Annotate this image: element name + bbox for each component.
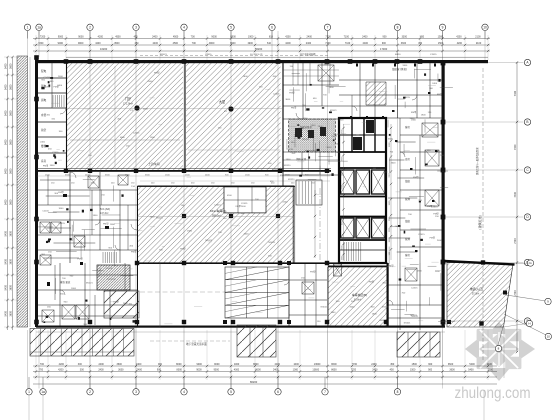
svg-text:M1520: M1520 xyxy=(288,179,295,181)
svg-text:2400: 2400 xyxy=(432,83,438,85)
svg-text:1000: 1000 xyxy=(293,368,299,371)
svg-text:2400: 2400 xyxy=(143,109,149,111)
svg-text:2: 2 xyxy=(89,26,91,30)
svg-text:M1021: M1021 xyxy=(160,54,167,56)
svg-text:2: 2 xyxy=(89,390,91,394)
svg-text:2400: 2400 xyxy=(148,81,154,83)
svg-text:值班: 值班 xyxy=(405,219,411,223)
svg-text:3600: 3600 xyxy=(10,311,13,317)
svg-text:2400: 2400 xyxy=(307,36,313,39)
svg-text:63.8m²: 63.8m² xyxy=(354,299,361,302)
svg-text:M1021: M1021 xyxy=(86,283,93,285)
svg-text:9000: 9000 xyxy=(78,42,84,45)
svg-text:16200: 16200 xyxy=(100,47,108,51)
svg-text:900: 900 xyxy=(382,36,387,39)
svg-text:57.3m²: 57.3m² xyxy=(472,293,479,296)
svg-text:3600: 3600 xyxy=(10,168,13,174)
svg-text:9000: 9000 xyxy=(58,42,64,45)
svg-text:9000: 9000 xyxy=(214,363,220,366)
svg-text:5400: 5400 xyxy=(5,63,8,69)
svg-text:2400: 2400 xyxy=(437,240,443,242)
svg-text:1800: 1800 xyxy=(329,87,335,89)
svg-text:1800: 1800 xyxy=(58,208,64,210)
svg-text:8: 8 xyxy=(397,390,399,394)
svg-text:坡道(入口): 坡道(入口) xyxy=(470,287,483,291)
svg-text:C2415: C2415 xyxy=(418,234,425,236)
svg-text:M1021: M1021 xyxy=(302,139,309,141)
svg-text:3: 3 xyxy=(135,26,137,30)
svg-text:171.24m²: 171.24m² xyxy=(123,103,133,106)
svg-text:9000: 9000 xyxy=(78,36,84,39)
svg-text:1900: 1900 xyxy=(247,42,253,45)
svg-text:3600: 3600 xyxy=(150,216,156,218)
svg-text:55200: 55200 xyxy=(255,47,263,51)
svg-text:M1021: M1021 xyxy=(269,242,276,244)
svg-text:电梯厅: 电梯厅 xyxy=(348,159,356,163)
svg-text:1900: 1900 xyxy=(248,36,254,39)
svg-text:配电: 配电 xyxy=(41,69,47,73)
svg-text:上空(车库): 上空(车库) xyxy=(148,162,160,166)
svg-text:7100: 7100 xyxy=(325,36,331,39)
svg-text:8.0 (A6): 8.0 (A6) xyxy=(100,207,110,211)
svg-text:H: H xyxy=(528,322,530,326)
svg-text:4: 4 xyxy=(183,390,185,394)
svg-text:2100: 2100 xyxy=(475,36,481,39)
svg-text:大堂: 大堂 xyxy=(219,99,225,104)
svg-text:1: 1 xyxy=(27,26,29,30)
svg-text:C2415: C2415 xyxy=(214,205,221,207)
svg-text:2400: 2400 xyxy=(371,363,377,366)
svg-text:4200: 4200 xyxy=(457,42,463,45)
svg-text:900: 900 xyxy=(382,42,387,45)
svg-text:| 建筑红线 |: | 建筑红线 | xyxy=(477,215,482,230)
svg-text:3600: 3600 xyxy=(303,118,309,120)
svg-text:300: 300 xyxy=(78,363,83,366)
svg-text:1800: 1800 xyxy=(45,87,51,89)
svg-text:客房: 客房 xyxy=(405,253,411,257)
svg-text:900: 900 xyxy=(428,368,433,371)
svg-text:管井: 管井 xyxy=(405,197,411,201)
svg-text:7700: 7700 xyxy=(352,363,358,366)
svg-text:前室: 前室 xyxy=(41,128,47,132)
svg-text:700: 700 xyxy=(40,363,45,366)
svg-text:5: 5 xyxy=(230,26,232,30)
svg-text:M1021: M1021 xyxy=(156,218,163,220)
svg-text:1800: 1800 xyxy=(110,224,116,226)
svg-text:2400: 2400 xyxy=(435,271,441,273)
svg-text:3600: 3600 xyxy=(10,231,13,237)
svg-text:2100: 2100 xyxy=(488,368,494,371)
svg-text:C2415: C2415 xyxy=(273,93,280,95)
svg-text:300: 300 xyxy=(80,368,85,371)
svg-text:9000: 9000 xyxy=(214,368,220,371)
svg-text:值班室 (休息): 值班室 (休息) xyxy=(392,67,407,71)
svg-text:4200: 4200 xyxy=(58,368,64,371)
svg-text:7700: 7700 xyxy=(351,368,357,371)
svg-text:1800: 1800 xyxy=(417,270,423,272)
svg-text:1800: 1800 xyxy=(286,159,292,161)
svg-text:2400: 2400 xyxy=(40,141,46,143)
svg-text:1800: 1800 xyxy=(50,165,56,167)
svg-text:4: 4 xyxy=(183,26,185,30)
svg-text:zhulong.com: zhulong.com xyxy=(455,385,531,402)
svg-text:7: 7 xyxy=(324,390,326,394)
svg-text:2400: 2400 xyxy=(152,36,158,39)
svg-text:1800: 1800 xyxy=(339,119,345,121)
svg-text:客房: 客房 xyxy=(405,125,411,129)
svg-text:5400: 5400 xyxy=(5,231,8,237)
svg-text:7200: 7200 xyxy=(40,36,46,39)
svg-text:86200: 86200 xyxy=(250,380,258,384)
svg-text:2400: 2400 xyxy=(98,368,104,371)
svg-text:车库夹层(B): 车库夹层(B) xyxy=(352,293,367,297)
svg-text:3600: 3600 xyxy=(448,363,454,366)
svg-text:147.3m²: 147.3m² xyxy=(100,212,109,215)
svg-text:8000: 8000 xyxy=(177,368,183,371)
svg-text:3600: 3600 xyxy=(117,363,123,366)
svg-text:3600: 3600 xyxy=(285,99,291,101)
svg-text:3600: 3600 xyxy=(349,306,355,308)
svg-text:13600: 13600 xyxy=(314,363,321,366)
svg-text:淋浴 更衣: 淋浴 更衣 xyxy=(60,280,71,284)
svg-text:3600: 3600 xyxy=(391,163,397,165)
svg-text:4200: 4200 xyxy=(456,36,462,39)
svg-text:13600: 13600 xyxy=(312,368,319,371)
svg-text:1800: 1800 xyxy=(379,320,385,322)
svg-text:9000: 9000 xyxy=(211,36,217,39)
svg-text:6: 6 xyxy=(277,390,279,394)
svg-text:7100: 7100 xyxy=(325,42,331,45)
svg-text:7400: 7400 xyxy=(514,144,517,150)
svg-text:700: 700 xyxy=(192,42,197,45)
svg-text:7400: 7400 xyxy=(514,90,517,96)
svg-text:5400: 5400 xyxy=(5,311,8,317)
svg-text:1800: 1800 xyxy=(372,313,378,315)
svg-text:6900: 6900 xyxy=(230,36,236,39)
svg-text:消防水池: 消防水池 xyxy=(296,157,307,161)
svg-text:2400: 2400 xyxy=(275,363,281,366)
svg-text:C2415: C2415 xyxy=(133,133,140,135)
svg-text:M1021: M1021 xyxy=(336,152,343,154)
svg-text:9000: 9000 xyxy=(58,36,64,39)
svg-text:2400: 2400 xyxy=(136,363,142,366)
svg-text:6900: 6900 xyxy=(230,42,236,45)
svg-text:2400: 2400 xyxy=(153,42,159,45)
svg-text:958.0m²: 958.0m² xyxy=(212,215,221,218)
svg-text:5400: 5400 xyxy=(5,259,8,265)
svg-text:17300: 17300 xyxy=(380,47,388,51)
svg-text:450: 450 xyxy=(390,368,395,371)
svg-text:1500: 1500 xyxy=(411,363,417,366)
svg-text:7400: 7400 xyxy=(514,192,517,198)
svg-text:3600: 3600 xyxy=(10,199,13,205)
svg-text:3600: 3600 xyxy=(10,259,13,265)
svg-text:4500: 4500 xyxy=(173,36,179,39)
svg-text:1500: 1500 xyxy=(410,368,416,371)
svg-text:2400: 2400 xyxy=(372,368,378,371)
svg-text:5400: 5400 xyxy=(5,84,8,90)
svg-text:7200: 7200 xyxy=(38,42,44,45)
svg-text:2100: 2100 xyxy=(476,42,482,45)
svg-text:610: 610 xyxy=(269,36,274,39)
svg-text:KFa 车库(A): KFa 车库(A) xyxy=(210,208,226,213)
svg-text:1a: 1a xyxy=(41,390,45,394)
svg-text:3600: 3600 xyxy=(410,118,416,120)
svg-text:8: 8 xyxy=(397,26,399,30)
svg-text:7100: 7100 xyxy=(344,36,350,39)
svg-text:4200: 4200 xyxy=(59,363,65,366)
svg-text:3600: 3600 xyxy=(326,147,332,149)
svg-text:5400: 5400 xyxy=(5,285,8,291)
svg-text:3600: 3600 xyxy=(10,110,13,116)
svg-text:6: 6 xyxy=(271,26,273,30)
svg-text:M1520: M1520 xyxy=(284,165,291,167)
svg-text:2400: 2400 xyxy=(311,125,317,127)
svg-text:8600: 8600 xyxy=(253,363,259,366)
svg-text:M1021: M1021 xyxy=(205,240,212,242)
svg-text:4500: 4500 xyxy=(173,42,179,45)
svg-text:9000: 9000 xyxy=(196,368,202,371)
svg-text:1800: 1800 xyxy=(331,312,337,314)
svg-text:1800: 1800 xyxy=(411,120,417,122)
svg-text:弱电: 弱电 xyxy=(41,98,47,102)
svg-text:8600: 8600 xyxy=(331,363,337,366)
svg-text:9000: 9000 xyxy=(209,42,215,45)
svg-text:1500: 1500 xyxy=(438,36,444,39)
svg-text:4500: 4500 xyxy=(115,36,121,39)
svg-text:5400: 5400 xyxy=(5,199,8,205)
svg-text:2400: 2400 xyxy=(123,303,129,305)
svg-text:2400: 2400 xyxy=(363,42,369,45)
svg-text:7400: 7400 xyxy=(514,238,517,244)
svg-text:M820: M820 xyxy=(395,54,401,56)
svg-text:M1021: M1021 xyxy=(410,315,417,317)
svg-text:JLC102 4-7F: JLC102 4-7F xyxy=(250,54,263,56)
svg-text:M1021: M1021 xyxy=(404,322,411,324)
svg-text:1: 1 xyxy=(28,390,30,394)
svg-text:3300: 3300 xyxy=(401,42,407,45)
svg-text:700: 700 xyxy=(39,368,44,371)
svg-text:3: 3 xyxy=(135,390,137,394)
svg-text:1800: 1800 xyxy=(187,231,193,233)
svg-text:M1021: M1021 xyxy=(333,134,340,136)
svg-text:C2415: C2415 xyxy=(287,149,294,151)
svg-text:1000: 1000 xyxy=(293,363,299,366)
svg-text:3600: 3600 xyxy=(118,368,124,371)
svg-text:3600: 3600 xyxy=(449,368,455,371)
svg-text:3600: 3600 xyxy=(388,139,394,141)
svg-text:4200: 4200 xyxy=(285,42,291,45)
svg-text:3600: 3600 xyxy=(10,84,13,90)
svg-text:3600: 3600 xyxy=(10,139,13,145)
svg-text:2100: 2100 xyxy=(487,363,493,366)
svg-text:900: 900 xyxy=(158,363,163,366)
svg-text:2400: 2400 xyxy=(58,76,64,78)
svg-text:8000: 8000 xyxy=(176,363,182,366)
svg-text:900: 900 xyxy=(428,363,433,366)
svg-text:10: 10 xyxy=(547,335,551,339)
svg-text:4200: 4200 xyxy=(95,42,101,45)
svg-text:450: 450 xyxy=(135,42,140,45)
svg-text:C2415: C2415 xyxy=(431,206,438,208)
svg-text:9000: 9000 xyxy=(197,363,203,366)
svg-text:700: 700 xyxy=(191,36,196,39)
svg-text:450: 450 xyxy=(390,363,395,366)
svg-text:5400: 5400 xyxy=(468,368,474,371)
svg-text:1800: 1800 xyxy=(421,115,427,117)
svg-text:C2415: C2415 xyxy=(205,54,212,56)
svg-text:4200: 4200 xyxy=(98,36,104,39)
svg-text:3600: 3600 xyxy=(10,63,13,69)
svg-text:900: 900 xyxy=(157,368,162,371)
svg-text:1800: 1800 xyxy=(93,215,99,217)
svg-text:2400: 2400 xyxy=(137,368,143,371)
svg-text:5400: 5400 xyxy=(5,139,8,145)
svg-text:C2415: C2415 xyxy=(106,268,113,270)
svg-text:C2415: C2415 xyxy=(52,152,59,154)
svg-text:4200: 4200 xyxy=(285,36,291,39)
svg-text:1800: 1800 xyxy=(243,76,249,78)
svg-text:5: 5 xyxy=(230,390,232,394)
svg-text:2400: 2400 xyxy=(244,234,250,236)
svg-text:7100: 7100 xyxy=(345,42,351,45)
svg-text:8600: 8600 xyxy=(255,368,261,371)
svg-text:2400: 2400 xyxy=(306,42,312,45)
svg-text:管井: 管井 xyxy=(405,237,411,241)
svg-text:3300: 3300 xyxy=(402,36,408,39)
svg-text:4500: 4500 xyxy=(114,42,120,45)
svg-text:1800: 1800 xyxy=(71,288,77,290)
svg-text:库房: 库房 xyxy=(405,157,411,161)
svg-text:2400: 2400 xyxy=(282,201,288,203)
svg-text:值班: 值班 xyxy=(405,179,411,183)
svg-text:C1515: C1515 xyxy=(430,54,437,56)
svg-text:450: 450 xyxy=(420,36,425,39)
svg-text:C2415: C2415 xyxy=(241,203,248,205)
svg-text:5400: 5400 xyxy=(5,110,8,116)
svg-text:9: 9 xyxy=(442,26,444,30)
svg-text:1a: 1a xyxy=(37,26,41,30)
svg-text:1500: 1500 xyxy=(438,42,444,45)
svg-text:M1021: M1021 xyxy=(382,307,389,309)
svg-text:地下室采光顶平面: 地下室采光顶平面 xyxy=(186,342,207,346)
svg-text:1800: 1800 xyxy=(402,65,408,67)
svg-text:5400: 5400 xyxy=(469,363,475,366)
svg-text:2400: 2400 xyxy=(273,368,279,371)
svg-text:5400: 5400 xyxy=(5,168,8,174)
svg-text:8600: 8600 xyxy=(331,368,337,371)
svg-text:门厅: 门厅 xyxy=(125,96,132,101)
svg-text:610: 610 xyxy=(267,42,272,45)
svg-text:7400: 7400 xyxy=(514,290,517,296)
svg-text:3600: 3600 xyxy=(10,285,13,291)
svg-text:450: 450 xyxy=(418,42,423,45)
svg-text:B: B xyxy=(526,120,528,124)
svg-text:库房: 库房 xyxy=(41,159,47,163)
svg-text:7: 7 xyxy=(327,26,329,30)
svg-text:M1021: M1021 xyxy=(321,307,328,309)
svg-text:C2415: C2415 xyxy=(411,288,418,290)
svg-text:2400: 2400 xyxy=(98,363,104,366)
svg-text:2400: 2400 xyxy=(362,36,368,39)
svg-text:4000: 4000 xyxy=(234,368,240,371)
svg-text:4000: 4000 xyxy=(234,363,240,366)
svg-text:10: 10 xyxy=(483,26,487,30)
